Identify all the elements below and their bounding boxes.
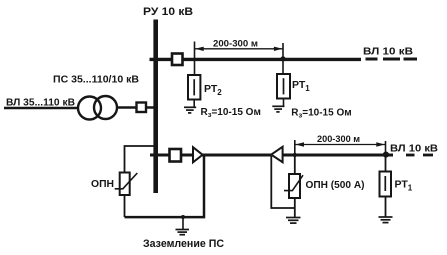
svg-text:ВЛ 10 кВ: ВЛ 10 кВ (363, 45, 413, 57)
svg-text:200-300 м: 200-300 м (317, 134, 360, 145)
svg-text:ВЛ 10 кВ: ВЛ 10 кВ (390, 142, 438, 154)
svg-text:ПС 35...110/10 кВ: ПС 35...110/10 кВ (53, 73, 139, 85)
svg-text:ОПН (500 А): ОПН (500 А) (306, 179, 365, 191)
svg-text:Заземление ПС: Заземление ПС (143, 238, 224, 250)
svg-text:ОПН: ОПН (91, 178, 114, 190)
svg-text:200-300 м: 200-300 м (213, 38, 258, 49)
svg-text:РУ 10 кВ: РУ 10 кВ (143, 6, 193, 18)
svg-text:ВЛ 35...110 кВ: ВЛ 35...110 кВ (6, 96, 75, 108)
